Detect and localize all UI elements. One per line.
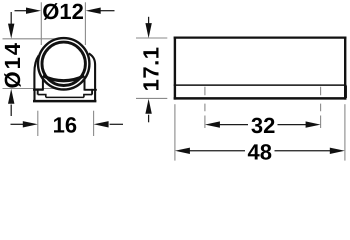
svg-text:16: 16 — [53, 112, 77, 137]
svg-text:17.1: 17.1 — [138, 47, 163, 92]
svg-text:32: 32 — [251, 113, 275, 138]
svg-text:48: 48 — [248, 139, 272, 164]
svg-text:Ø12: Ø12 — [42, 0, 84, 24]
svg-text:Ø14: Ø14 — [0, 41, 25, 89]
